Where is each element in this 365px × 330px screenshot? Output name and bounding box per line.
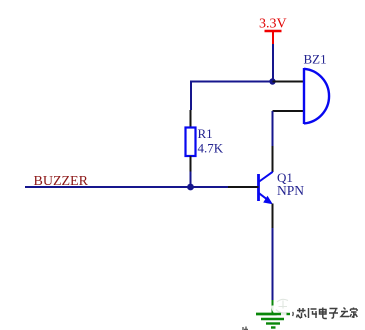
wire power stem to top rail (272, 44, 274, 81)
wire resistor to junction (190, 172, 192, 188)
char dian (320, 308, 327, 319)
buzzer BZ1 body (304, 68, 329, 124)
ground symbol (256, 300, 290, 328)
watermark comma (292, 312, 295, 316)
buzzer BZ1 bottom pin (273, 110, 304, 112)
watermark logo circle (256, 297, 296, 317)
wire emitter to ground (272, 228, 274, 301)
resistor R1 body (186, 128, 196, 157)
svg-text:NPN: NPN (277, 183, 304, 198)
svg-text:4.7K: 4.7K (198, 141, 224, 156)
resistor R1 top pin (190, 110, 192, 127)
svg-text:R1: R1 (198, 126, 213, 141)
char jia (350, 308, 358, 319)
svg-text:3.3V: 3.3V (259, 17, 287, 32)
wire top rail: junction left then down to resistor (191, 82, 273, 111)
char zi (329, 309, 338, 319)
power symbol bar VCC (265, 30, 282, 33)
svg-text:BUZZER: BUZZER (34, 174, 89, 189)
wire buzzer bottom to collector pin (272, 111, 274, 146)
transistor Q1 base pin (228, 186, 259, 188)
transistor Q1 emitter pin (272, 204, 274, 229)
transistor Q1 body (259, 172, 273, 202)
power symbol stem (272, 31, 274, 44)
wire net BUZZER horizontal (25, 186, 228, 188)
transistor Q1 emitter arrow (263, 196, 273, 204)
char xin (297, 308, 307, 318)
char zhi (341, 308, 349, 317)
resistor R1 bottom pin (190, 156, 192, 172)
watermark text strokes (CJK imitation) (297, 308, 358, 319)
junction dot at top rail (269, 78, 275, 84)
transistor Q1 collector pin (272, 146, 274, 172)
junction dot at resistor bottom (187, 184, 194, 191)
buzzer BZ1 top pin (273, 81, 304, 83)
char pian (309, 308, 318, 318)
bottom edge cropped text mark (243, 327, 248, 330)
svg-text:BZ1: BZ1 (304, 52, 327, 67)
